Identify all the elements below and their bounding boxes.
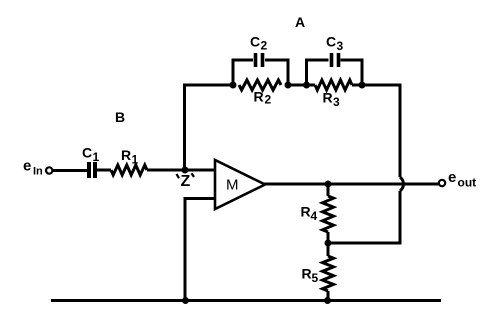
node R5/ground [324,297,331,304]
label C1 [82,145,100,165]
svg-text:2: 2 [265,93,272,107]
svg-text:In: In [33,166,43,178]
resistor R2 [239,80,281,90]
label R2 [254,89,272,107]
wire to R4/R5 junction [328,242,402,245]
svg-text:1: 1 [93,150,100,164]
label 'Z' [177,173,195,190]
svg-text:4: 4 [311,209,318,223]
svg-text:B: B [115,109,125,125]
output terminal [439,180,445,186]
node at ground left [182,297,189,304]
resistor R3 [307,80,363,90]
label R1 [121,147,139,167]
svg-text:R: R [254,89,264,105]
op-amp M [215,160,265,209]
wire R5 bottom stub [327,291,330,301]
svg-text:out: out [458,176,477,190]
wire right vertical upper [399,84,402,178]
capacitor C2 branch [233,53,288,85]
wire lower input [185,197,215,301]
wire top rail left [183,84,233,87]
label R5 [302,266,319,286]
wire between pairs [288,84,307,87]
label R4 [301,204,318,224]
resistor R4 [323,196,334,232]
node right of C2/R2 [285,82,292,89]
svg-text:M: M [226,177,239,194]
node left of C2/R2 [230,82,237,89]
label C3 [326,34,344,54]
svg-text:C: C [82,145,92,161]
capacitor C3 branch [307,53,363,85]
svg-text:3: 3 [337,39,344,53]
wire R5 top stub [327,243,330,256]
label e_in [23,158,43,178]
resistor R1 [111,165,147,175]
svg-text:A: A [295,14,305,30]
wire R4 top stub [327,184,330,196]
svg-text:1: 1 [132,153,139,167]
svg-text:R: R [121,147,131,163]
svg-text:5: 5 [312,271,319,285]
node Z junction [182,167,189,174]
svg-text:R: R [302,266,312,282]
wire output [263,183,439,186]
resistor R5 [323,256,334,291]
node at R4 top [325,181,332,188]
svg-text:e: e [23,158,31,175]
wire R1 to op-amp input [147,169,215,172]
label C2 [250,34,268,53]
node left of C3/R3 [303,82,310,89]
ground wire [51,299,441,302]
wire C1 to R1 [97,169,111,172]
wire R4 bottom stub [327,232,330,243]
svg-text:e: e [448,169,456,186]
wire crossing hop at output [400,177,404,191]
svg-text:3: 3 [333,95,340,109]
svg-text:C: C [326,34,336,50]
node R4/R5 junction [325,240,332,247]
wire input to C1 [53,169,88,172]
label R3 [323,90,341,110]
wire top rail right [362,84,402,87]
label e_out [448,169,476,190]
wire feedback left vertical [183,85,186,170]
capacitor C1 [89,162,95,178]
input terminal [46,167,52,173]
svg-text:R: R [323,90,333,106]
svg-text:Z: Z [181,173,191,190]
svg-text:C: C [250,34,260,50]
node right of C3/R3 [359,82,366,89]
svg-text:2: 2 [261,39,268,53]
wire right vertical lower [399,191,402,245]
svg-text:R: R [301,204,311,220]
